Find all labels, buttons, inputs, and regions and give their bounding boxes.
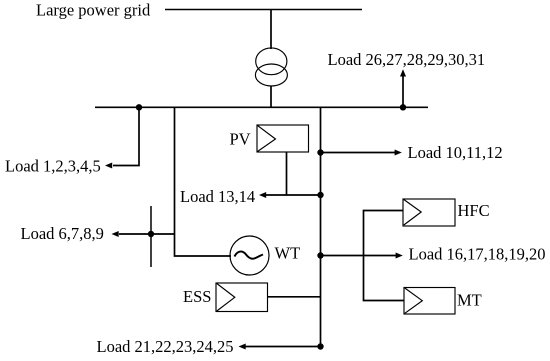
arrow to Load 1,2,3,4,5 — [105, 163, 112, 169]
node: junction right feeder / Load 21-25 — [317, 343, 323, 349]
arrow to Load 21,22,23,24,25 — [239, 344, 246, 350]
ESS triangle symbol — [217, 284, 235, 312]
wire: top bus of large power grid — [165, 9, 362, 11]
PV triangle symbol — [258, 126, 276, 152]
wire: Load 10-12 branch — [321, 152, 396, 154]
node: junction right feeder / Load 10-12 — [317, 149, 323, 155]
svg-text:Load 13,14: Load 13,14 — [180, 187, 255, 206]
wire: PV down to Load 13,14 line — [286, 152, 288, 195]
svg-text:WT: WT — [275, 244, 301, 263]
wire: main microgrid bus — [95, 106, 428, 108]
MT triangle symbol — [405, 288, 423, 313]
wire: grid to transformer — [270, 10, 272, 50]
node: junction right feeder / Load 16-20 — [317, 252, 323, 258]
node: junction on bus for Load 1-5 — [136, 104, 142, 110]
svg-text:ESS: ESS — [183, 287, 211, 306]
arrow to Load 16,17,18,19,20 — [396, 253, 403, 259]
svg-text:Load 6,7,8,9: Load 6,7,8,9 — [21, 224, 104, 243]
HFC triangle symbol — [404, 200, 421, 226]
svg-text:Large power grid: Large power grid — [36, 1, 151, 20]
svg-text:Load 26,27,28,29,30,31: Load 26,27,28,29,30,31 — [328, 50, 486, 69]
PV block — [257, 125, 309, 152]
wire: Load 16-20 branch — [321, 255, 398, 257]
arrow to Load 6,7,8,9 — [112, 231, 119, 237]
MT block — [404, 288, 455, 315]
wire: bus down to Load 1-5 branch — [113, 107, 139, 165]
wire: left feeder from bus down to WT — [175, 107, 232, 256]
wire: vertical stub crossing Load 6-9 branch — [150, 206, 152, 267]
wire: Load 13,14 line to right feeder — [265, 194, 321, 196]
svg-text:Load 21,22,23,24,25: Load 21,22,23,24,25 — [97, 337, 234, 356]
ESS block — [216, 283, 268, 312]
arrow up to Load 26-31 — [402, 74, 404, 107]
wire: Load 21-25 branch — [245, 346, 321, 348]
svg-text:Load 10,11,12: Load 10,11,12 — [408, 143, 503, 162]
svg-text:Load 16,17,18,19,20: Load 16,17,18,19,20 — [409, 245, 546, 264]
wind turbine WT circle with sine — [230, 236, 269, 275]
node: junction right feeder / Load 13,14 — [317, 192, 323, 198]
wire: transformer to main bus — [270, 86, 272, 108]
HFC block — [403, 199, 455, 226]
node: junction on bus for Load 26-31 arrow — [400, 104, 406, 110]
wire: branch to HFC and MT — [364, 211, 405, 301]
arrow to Load 10,11,12 — [395, 150, 402, 156]
wire: ESS to right feeder — [268, 296, 321, 298]
svg-text:HFC: HFC — [458, 201, 490, 220]
wire: right feeder from bus down — [320, 107, 322, 346]
arrow to Load 13,14 — [259, 192, 266, 198]
svg-text:MT: MT — [457, 291, 482, 310]
svg-text:Load 1,2,3,4,5: Load 1,2,3,4,5 — [5, 157, 101, 176]
wire: Load 6-9 branch — [119, 233, 175, 235]
svg-text:PV: PV — [230, 130, 251, 149]
node: junction on Load 6-9 branch — [148, 231, 154, 237]
transformer T1 (two overlapping circles) — [255, 48, 287, 86]
